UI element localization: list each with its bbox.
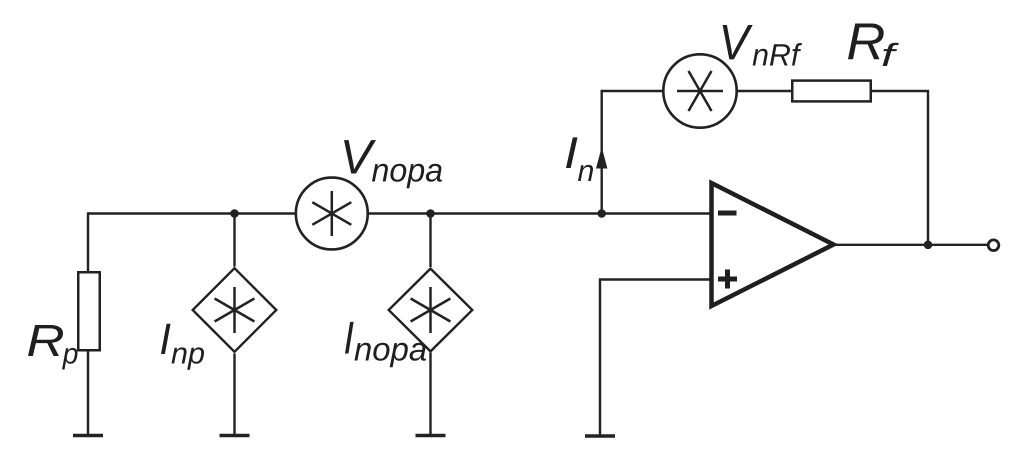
- node C junction dot: [597, 209, 606, 218]
- current noise source Inopa (diamond): [389, 269, 473, 352]
- wire from Vnopa to op-amp minus input: [367, 212, 712, 214]
- node A junction dot: [230, 209, 239, 218]
- op-amp plus sign: [718, 270, 737, 289]
- label VnRf: [723, 25, 802, 66]
- op-amp U1 triangle: [712, 183, 834, 306]
- label Vnopa: [344, 140, 442, 188]
- wire resistor Rf to right corner down to output node: [871, 91, 928, 245]
- output terminal open circle: [988, 240, 999, 251]
- wire Inp diamond bottom to ground: [233, 354, 235, 436]
- wire Inopa diamond bottom to ground: [429, 353, 431, 436]
- label Inopa: [345, 322, 426, 367]
- voltage noise source VnRf (circle): [663, 54, 736, 127]
- node B junction dot: [426, 209, 435, 218]
- wire resistor Rp bottom to ground: [87, 352, 89, 436]
- wire op-amp output to terminal: [833, 244, 988, 246]
- ground (plus input): [585, 434, 615, 438]
- ground (Rp): [73, 434, 103, 438]
- voltage noise source Vnopa (circle): [296, 178, 368, 250]
- resistor Rp body: [78, 272, 100, 350]
- wire node B down to Inopa diamond: [429, 214, 431, 268]
- current noise source Inp (diamond): [193, 268, 277, 352]
- op-amp minus sign: [718, 211, 737, 216]
- label In: [566, 137, 593, 181]
- In current arrow head: [596, 147, 607, 169]
- resistor Rf body: [792, 81, 871, 102]
- label Rf: [848, 24, 899, 67]
- wire In branch up from node C to feedback corner: [602, 91, 664, 214]
- wire main horizontal inverting-input net: [88, 212, 297, 214]
- label Rp: [28, 325, 78, 370]
- node D output junction dot: [924, 241, 933, 250]
- wire left branch down to resistor Rp: [87, 212, 89, 271]
- label Inp: [161, 324, 204, 370]
- ground (Inopa): [416, 434, 446, 438]
- wire plus input to ground: [600, 280, 712, 436]
- ground (Inp): [220, 434, 250, 438]
- wire node A down to Inp diamond: [233, 214, 235, 267]
- wire VnRf circle to resistor Rf: [737, 90, 793, 92]
